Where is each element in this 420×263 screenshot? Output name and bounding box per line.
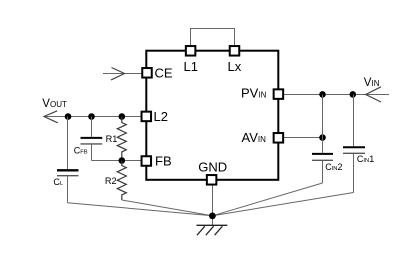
label CIN2 (325, 162, 342, 172)
label CIN1 (357, 154, 374, 164)
label L2 (154, 109, 168, 124)
pin CE (142, 68, 152, 78)
svg-text:CFB: CFB (74, 145, 88, 155)
pin GND (207, 175, 217, 185)
svg-text:GND: GND (198, 160, 227, 175)
op-amp U1 : IC body rectangle (146, 51, 278, 180)
wire : CL to ground diagonal (68, 203, 213, 216)
node : junction dot FB / R1-R2 (119, 157, 126, 164)
wire : VOUT output wire with arrow (44, 111, 141, 123)
label PVIN (241, 85, 267, 100)
wire : CIN1 to ground diagonal (212, 193, 353, 216)
svg-text:CE: CE (155, 66, 173, 81)
label R1 (106, 134, 118, 144)
svg-text:FB: FB (155, 154, 172, 169)
label CE (155, 66, 173, 81)
wire : CIN2 to ground diagonal (212, 183, 322, 216)
label VIN (364, 77, 380, 89)
node : junction dot CFB branch (88, 113, 95, 120)
pin FB (142, 156, 152, 166)
svg-text:L1: L1 (184, 59, 198, 74)
node : junction dot R1 top (119, 113, 126, 120)
svg-text:VIN: VIN (364, 77, 380, 89)
pin L2 (142, 112, 152, 122)
node : junction dot PVIN/CIN1 (350, 91, 357, 98)
svg-text:Lx: Lx (228, 59, 242, 74)
svg-text:CIN1: CIN1 (357, 154, 374, 164)
resistor R2 (117, 161, 126, 201)
node : junction dot CL branch (65, 113, 72, 120)
label FB (155, 154, 172, 169)
node : junction dot AVIN/CIN2 (319, 134, 326, 141)
pin L1 (186, 46, 196, 56)
pin AVIN (274, 133, 284, 143)
pin Lx (230, 46, 240, 56)
wire : PVIN to VIN with arrow (284, 87, 389, 102)
label CL (53, 177, 64, 187)
wire : L1-Lx external jumper loop (191, 29, 235, 46)
capacitor CL (57, 117, 79, 203)
svg-text:PVIN: PVIN (241, 85, 267, 100)
svg-text:CIN2: CIN2 (325, 162, 342, 172)
wire : CE input wire with arrow (103, 68, 142, 80)
capacitor CIN1 (343, 95, 365, 193)
svg-text:CL: CL (53, 177, 64, 187)
label CFB (74, 145, 88, 155)
svg-text:R1: R1 (106, 134, 118, 144)
wire : AVIN horizontal (284, 137, 323, 139)
label Lx (228, 59, 242, 74)
svg-text:R2: R2 (105, 176, 117, 186)
wire : R2 to ground diagonal (122, 200, 213, 216)
label VOUT (42, 98, 67, 110)
wire : GND pin to ground (212, 185, 214, 225)
ground (197, 225, 228, 235)
label GND (198, 160, 227, 175)
label R2 (105, 176, 117, 186)
resistor R1 (117, 117, 126, 161)
capacitor CFB (81, 117, 103, 161)
svg-text:L2: L2 (154, 109, 168, 124)
svg-text:AVIN: AVIN (242, 130, 267, 145)
label L1 (184, 59, 198, 74)
label AVIN (242, 130, 267, 145)
capacitor CIN2 (312, 95, 333, 184)
node : ground junction dot (209, 213, 216, 220)
pin PVIN (274, 89, 284, 99)
node : junction dot PVIN/CIN2 (319, 91, 326, 98)
wire : FB node horizontal (92, 160, 142, 162)
svg-text:VOUT: VOUT (42, 98, 67, 110)
